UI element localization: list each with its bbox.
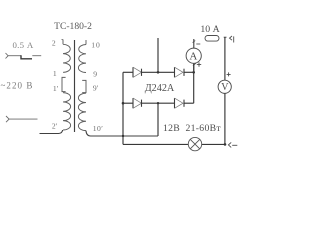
polarity tick on ammeter bottom wire [193,63,196,65]
svg-text:1′: 1′ [53,84,59,93]
wire mains bottom [9,118,37,120]
wire voltmeter bottom [224,93,226,144]
secondary winding lower section (pins 9'-10') [78,93,86,130]
wire ammeter bottom [193,63,195,72]
plug pin X1a (top mains prong) [6,53,9,59]
ammeter PA1 circle [186,48,201,63]
wire row2 middle [142,102,175,104]
svg-text:10: 10 [91,41,100,50]
polarity tick on ammeter top wire [193,41,196,43]
wire row1 to right bus [184,71,194,73]
node minus terminal junction dot [224,143,227,146]
svg-text:ТС-180-2: ТС-180-2 [54,21,92,32]
primary winding lower section (pins 1'-2') [63,93,71,130]
wire bottom minus left segment [123,143,188,145]
wire bridge left bus (DC minus) [122,72,124,144]
node crossing blob at 10' wire over bus [122,135,124,137]
diode VD4 [175,98,185,108]
svg-text:9′: 9′ [93,84,99,93]
stub at top terminal [224,36,227,38]
wire row1 middle [142,71,175,73]
node AC2 junction dot [157,102,159,104]
svg-text:9: 9 [93,69,97,78]
secondary winding lead pin 10 [85,40,87,45]
terminal X2 pin bar [233,36,235,42]
plus sign near ammeter bottom [197,62,201,66]
diode VD3 [133,98,142,108]
wire ammeter top [193,39,195,48]
fuse FU2 10 A body [205,36,219,42]
wire to primary pin 2' [40,130,63,134]
minus sign near ammeter top [196,43,200,45]
wire AC1 vertical [157,38,159,72]
wire output plus vertical (terminal to voltmeter) [224,37,226,80]
primary tap link 1-1' [62,77,66,91]
wire row2 from bus to diode VD3 [123,102,133,104]
wire right bus [193,64,195,103]
wire secondary pin 10' to bridge AC2 [86,131,158,136]
svg-text:2: 2 [52,39,56,48]
terminal X3 socket chevron [228,142,231,147]
wire row1 from bus to diode VD1 [123,71,133,73]
lamp HL1 cross [190,139,199,148]
fuse FU1 0.5 A body [21,55,32,59]
svg-text:~220 В: ~220 В [1,81,34,91]
diode VD1 [133,67,142,77]
svg-text:А: А [189,50,197,62]
plus sign near voltmeter top [227,72,231,76]
wire bottom minus right segment [202,143,225,145]
svg-text:10 А: 10 А [200,24,219,35]
diode VD2 [175,67,185,77]
wire AC2 vertical [157,103,159,136]
secondary winding upper section (pins 10-9) [78,45,86,73]
svg-text:Д242А: Д242А [145,83,175,94]
svg-text:0.5 А: 0.5 А [12,40,33,50]
secondary tap link 9-9' [82,80,86,92]
lamp HL1 circle [188,137,201,150]
terminal X2 socket chevron [230,36,233,40]
voltmeter PV1 circle [218,80,231,93]
plug pin X1b (bottom mains prong) [6,116,9,122]
terminal X3 pin bar [232,144,237,146]
transformer T1 core [74,40,76,132]
primary winding lead pin 2 [62,39,63,44]
primary winding upper section (pins 2-1) [63,44,71,72]
wire mains top right [32,55,41,57]
wire mains top left [8,55,21,57]
node DC plus junction dot [192,71,195,74]
svg-text:V: V [221,82,229,93]
svg-text:2′: 2′ [52,122,58,131]
svg-text:1: 1 [53,69,57,78]
node AC1 junction dot [157,71,160,74]
node bus row2 junction dot [122,102,125,105]
svg-text:10′: 10′ [93,124,104,133]
svg-text:12В 21-60Вт: 12В 21-60Вт [163,123,221,134]
wire row2 to right bus corner [184,102,194,104]
